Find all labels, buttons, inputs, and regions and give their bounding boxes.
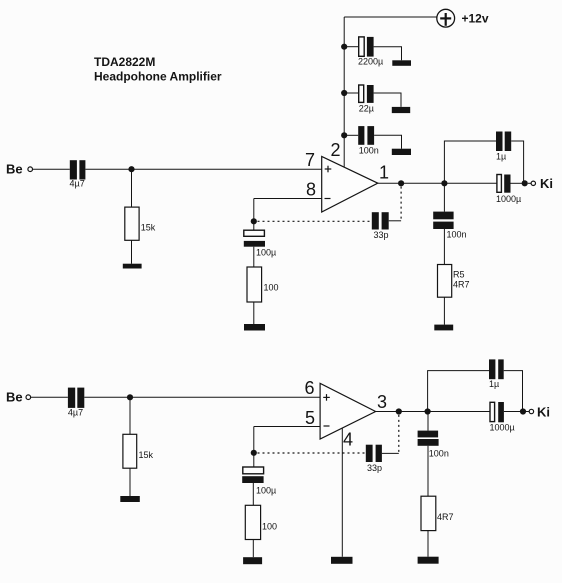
node output junction B (bottom) [425,408,431,414]
wire 100 to ground (top) [253,302,255,324]
wire 15k to ground (bottom) [129,468,131,496]
svg-text:TDA2822M: TDA2822M [94,55,155,69]
svg-text:3: 3 [377,392,387,412]
capacitor 22µ [359,85,374,114]
svg-text:100µ: 100µ [256,486,276,496]
svg-text:R5: R5 [453,270,465,280]
node output junction A (bottom) [396,408,402,414]
svg-text:22µ: 22µ [359,104,374,114]
svg-text:1: 1 [379,163,389,183]
svg-text:1000µ: 1000µ [496,194,521,204]
wire R5 to ground (top) [443,297,445,324]
wire pin 4 to ground [341,428,343,557]
svg-text:Be: Be [6,390,23,405]
capacitor 1000µ (bottom output) [490,402,515,432]
svg-text:100µ: 100µ [256,248,276,258]
node feedback junction (top) [251,218,257,224]
ground for 100n bypass [392,149,411,155]
wire output node to 100n zobel (top) [443,183,445,211]
power +12v terminal [437,9,489,27]
svg-text:1000µ: 1000µ [490,422,515,432]
wire 4µ7 to op-amp pin 7 [85,168,321,170]
wire 100µ to 100 resistor (top) [253,247,255,267]
wire pin 2 to +12v rail [343,17,345,167]
wire 100µ to 100 resistor (bottom) [252,483,254,505]
ground for 2200µ [392,60,411,66]
resistor 100 (top) [247,267,279,302]
resistor 4R7 (bottom) [421,496,454,530]
resistor 100 (bottom) [245,505,277,539]
svg-text:33p: 33p [374,230,389,240]
wire 1µ to output line (bottom) [504,371,523,412]
svg-text:6: 6 [305,378,315,398]
capacitor 1µ (top) [496,132,511,162]
node junction at 15k (bottom) [127,394,133,400]
svg-text:Be: Be [6,162,23,177]
node output junction B (top) [441,180,447,186]
wire 2200µ to ground [374,47,402,61]
op-amp U1a (top channel) [322,156,378,212]
svg-text:15k: 15k [141,223,156,233]
node rail at 2200µ [341,44,347,50]
svg-text:100: 100 [262,522,277,532]
wire 1µ branch (bottom) [428,371,489,412]
ground under 4R7 (bottom) [418,557,439,564]
wire rail to 100n [344,134,358,136]
capacitor 33p (bottom) [366,445,382,473]
node Ki output terminal (bottom) [520,405,550,420]
resistor 15k (top) [125,207,156,240]
capacitor 100n (supply bypass) [358,126,379,155]
ground under 100 (bottom) [243,557,262,564]
svg-text:1µ: 1µ [496,152,506,162]
wire 33p to dotted vertical (top) [389,220,401,222]
title text TDA2822M Headpohone Amplifier [94,55,222,84]
capacitor 100µ (top feedback) [244,221,276,257]
wire dotted feedback to 33p (top) [258,220,372,222]
wire 4R7 to ground (bottom) [427,531,429,557]
svg-text:1µ: 1µ [489,379,499,389]
svg-text:4: 4 [343,430,353,450]
svg-text:5: 5 [305,408,315,428]
wire 100n to ground [374,135,401,148]
resistor 15k (bottom) [123,434,154,468]
capacitor 2200µ [358,37,383,67]
wire 4µ7 to op-amp pin 6 [84,396,320,398]
wire dotted vertical to output node (top) [400,187,402,221]
ground under 15k (bottom) [120,496,140,502]
wire dotted feedback to 33p (bottom) [258,452,366,454]
capacitor 100n (bottom zobel) [418,431,449,459]
wire output node to 100n zobel (bottom) [427,412,429,431]
ground under 15k (top) [123,264,142,269]
wire output pin 3 to Ki [376,411,490,413]
wire 15k to ground (top) [131,240,133,263]
capacitor 33p (top) [372,212,389,240]
wire pin 5 down to feedback node [253,427,255,453]
svg-text:4µ7: 4µ7 [70,179,85,189]
wire dotted vertical to output node (bottom) [398,415,400,454]
op-amp U1b (bottom channel) [320,383,376,439]
wire 1µ branch (top) [444,141,496,183]
svg-text:2: 2 [331,140,341,160]
wire rail to 22µ [344,92,359,94]
node output junction A (top) [398,180,404,186]
wire 100 to ground (bottom) [252,540,254,558]
wire 33p to dotted vertical (bottom) [382,452,399,454]
node rail at 22µ [341,90,347,96]
wire input to 4µ7 (top) [33,168,70,170]
wire pin 5 input (bottom) [254,426,320,428]
wire node to 15k (top) [131,169,133,207]
wire node to 15k (bottom) [129,397,131,434]
wire rail to 2200µ [344,46,359,48]
capacitor 100n (top zobel) [433,212,466,240]
node Ki output terminal (top) [522,176,553,191]
node Be input terminal (bottom channel) [6,390,31,405]
ground under 100 (top) [244,324,265,331]
svg-text:4R7: 4R7 [437,512,454,522]
svg-text:7: 7 [305,150,315,170]
ground under R5 (top) [434,325,453,331]
capacitor 4µ7 (top input coupling) [70,160,86,188]
svg-text:100: 100 [264,283,279,293]
wire 100n to 4R7 (bottom) [427,446,429,496]
svg-text:2200µ: 2200µ [358,57,383,67]
ground for pin 4 [331,557,353,564]
svg-text:4µ7: 4µ7 [68,408,83,418]
wire 22µ to ground [374,93,401,107]
node Be input terminal (top channel) [6,162,33,177]
wire +12v rail top [344,16,437,18]
svg-text:Ki: Ki [537,405,550,420]
wire 1µ to output line (top) [511,141,523,183]
wire output pin 1 to Ki [378,182,497,184]
wire pin 8 input (top) [254,198,322,200]
wire 100n to R5 (top) [443,229,445,265]
node feedback junction (bottom) [251,450,257,456]
svg-text:Ki: Ki [540,176,553,191]
capacitor 1000µ (top output) [496,175,521,205]
capacitor 1µ (bottom) [489,359,504,388]
svg-text:8: 8 [306,180,316,200]
svg-text:33p: 33p [367,463,382,473]
node rail at 100n [341,132,347,138]
ground for 22µ [392,107,410,113]
svg-text:4R7: 4R7 [453,280,470,290]
wire input to 4µ7 (bottom) [31,396,68,398]
wire pin 8 down to feedback node [253,199,255,222]
svg-text:15k: 15k [139,450,154,460]
capacitor 100µ (bottom feedback) [242,453,276,496]
svg-text:+12v: +12v [462,11,489,25]
svg-text:100n: 100n [447,230,467,240]
resistor R5 4R7 (top) [438,265,470,298]
svg-text:Headpohone Amplifier: Headpohone Amplifier [94,70,222,84]
svg-text:100n: 100n [359,146,379,156]
capacitor 4µ7 (bottom input coupling) [68,388,84,418]
node junction at 15k (top) [128,166,134,172]
svg-text:100n: 100n [429,449,449,459]
